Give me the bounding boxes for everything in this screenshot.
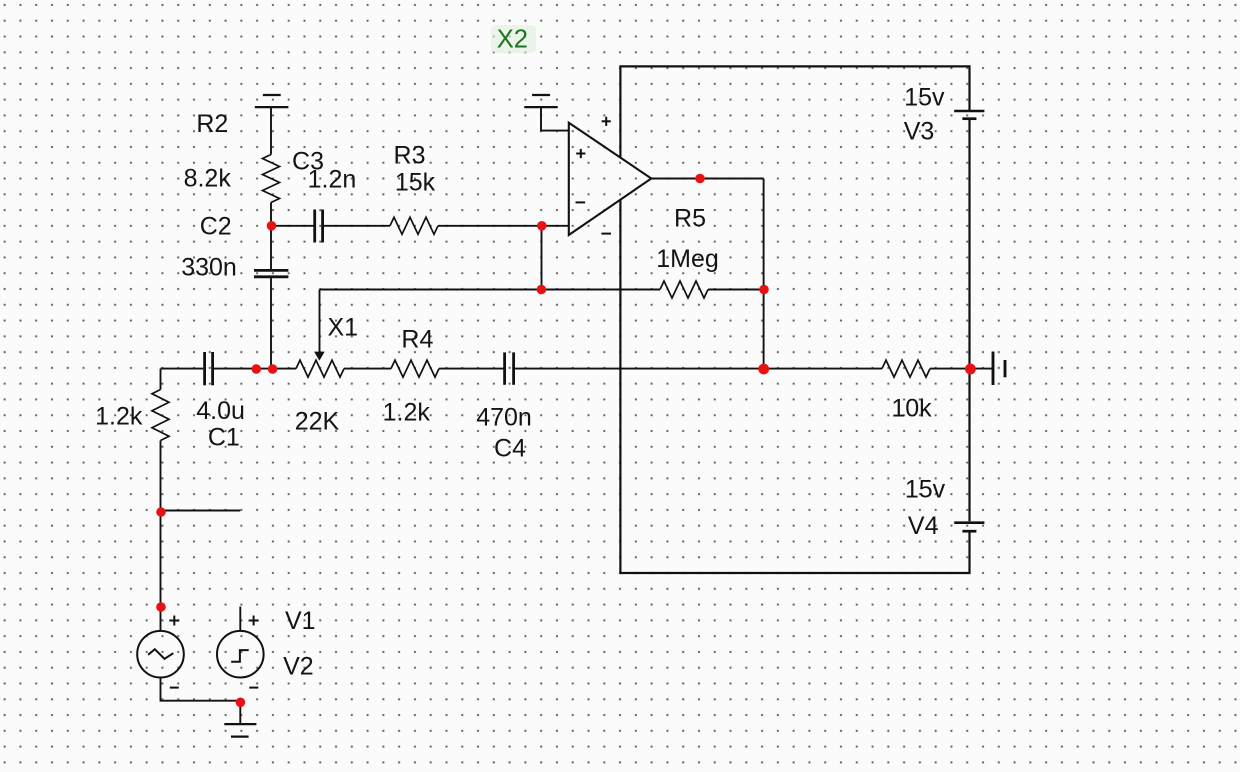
op-amp plus input marker [576,149,585,158]
resistor 1.2k (left) [152,390,169,441]
op-amp U1 triangle [569,123,652,235]
supply box bottom edge [620,200,969,573]
svg-text:X2: X2 [497,26,528,54]
svg-text:V3: V3 [904,118,935,146]
wire inverting node down to feedback [541,226,543,290]
ground GND1 (above R2) [255,95,289,107]
svg-text:V1: V1 [285,607,316,635]
resistor R3 [390,217,438,234]
potentiometer X1 arrowhead [314,352,325,361]
ground GND2 (op-amp non-inverting) [524,95,557,107]
node dot stub [156,507,166,517]
svg-text:C2: C2 [200,213,232,241]
resistor 10k [882,360,930,377]
wire stub node A [161,510,241,512]
node dot output [695,174,705,184]
svg-text:1.2n: 1.2n [308,166,357,194]
svg-text:C1: C1 [208,424,240,452]
wire C1 to potentiometer [214,368,296,370]
source V2 step symbol [231,650,249,662]
wire node to C3 [271,225,314,227]
V1 plus marker [169,616,179,626]
V2 top stub wire [239,607,241,632]
wire V1 bottom to ground run [161,678,241,725]
ground GND3 (bottom) [224,724,256,737]
wire X1 to R4 [344,368,391,370]
V2 minus marker [249,687,258,689]
svg-text:8.2k: 8.2k [184,165,232,193]
wire R4 to C4 [439,368,504,370]
svg-text:C4: C4 [494,435,526,463]
V1 minus marker [170,687,179,689]
wire output branch down [763,179,765,369]
wire op-amp output [651,178,763,180]
source V1 [137,631,184,678]
wire R5 to output branch [708,289,764,291]
V2 plus marker [249,616,259,626]
label X2 selection halo [491,25,536,53]
wire C3 to R3 [324,225,391,227]
wire left column down from main wire [160,369,162,390]
wire feedback horizontal run [320,289,661,291]
wire C4 to 10k resistor [515,368,882,370]
svg-text:X1: X1 [328,314,359,342]
wire R2 to C2 [270,203,272,270]
node dot feedback left [537,285,547,295]
node dot R5 right [759,285,769,295]
node dot main wire left [251,364,261,374]
svg-text:10k: 10k [891,395,932,423]
source V1 sine symbol [148,649,173,659]
wire GND2 to op-amp + input [541,107,569,131]
potentiometer X1 arrow wire [319,290,321,353]
capacitor C2 [254,270,288,276]
capacitor C4 [505,352,514,384]
svg-text:15v: 15v [904,84,945,112]
wire C2 to main node [270,278,272,369]
wire main left corner to C1 [161,368,204,370]
svg-text:15v: 15v [905,476,946,504]
potentiometer X1 body [296,360,344,377]
node dot rail/main junction [965,364,976,375]
svg-text:1.2k: 1.2k [95,403,143,431]
node dot V1 top [156,602,166,612]
op-amp V- pin marker [601,233,611,235]
svg-text:1.2k: 1.2k [383,399,431,427]
svg-text:4.0u: 4.0u [196,397,245,425]
op-amp minus input marker [576,201,586,203]
svg-text:22K: 22K [295,408,340,436]
capacitor C3 [315,210,323,243]
svg-text:330n: 330n [181,254,237,282]
svg-text:R3: R3 [394,142,426,170]
svg-text:V2: V2 [283,653,314,681]
svg-text:1Meg: 1Meg [656,245,719,273]
node dot ground junction [236,698,246,708]
svg-text:15k: 15k [395,169,436,197]
svg-text:R4: R4 [401,326,433,354]
wire GND1 to R2 [270,107,272,154]
svg-text:470n: 470n [476,404,532,432]
node dot inverting input [537,221,547,231]
svg-text:R2: R2 [196,110,228,138]
capacitor (output, right edge) [993,352,1005,386]
wire 10k to output cap [930,368,992,370]
source V2 [217,631,264,678]
wire 1.2k to V1 [160,441,162,632]
node dot C2/C3 junction [267,221,277,231]
svg-text:R5: R5 [674,205,706,233]
op-amp V+ pin marker [602,117,611,126]
supply box right edge [968,120,970,521]
battery V3 [954,111,984,119]
battery V4 [954,523,984,532]
svg-text:V4: V4 [908,512,939,540]
capacitor C1 [205,352,213,385]
resistor R5 [660,281,708,298]
node dot C2 branch bottom [268,364,278,374]
wire R3 to op-amp inverting input [438,225,569,227]
node dot output/main junction [758,364,769,375]
supply box top edge [620,66,969,157]
resistor R4 [391,360,439,377]
resistor R2 [263,155,280,203]
